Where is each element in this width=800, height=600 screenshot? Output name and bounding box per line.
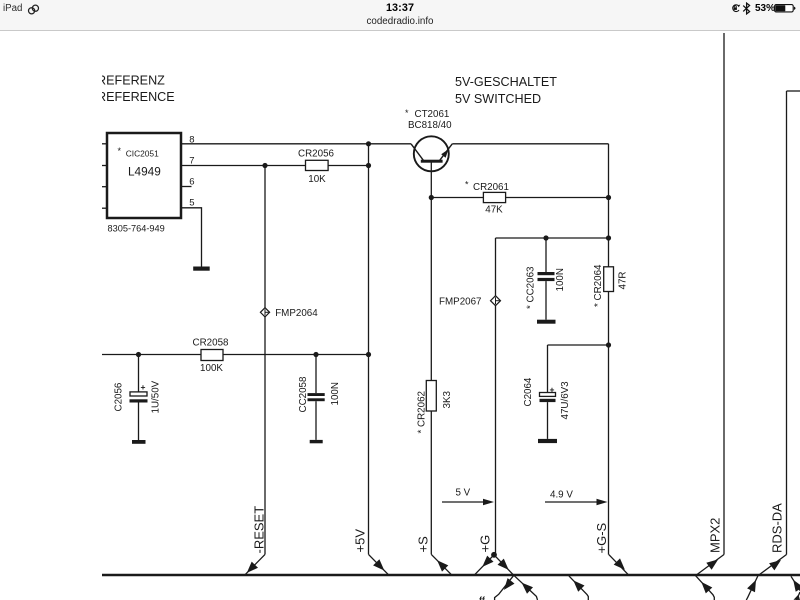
svg-text:*: * [118, 146, 122, 156]
svg-text:+G: +G [478, 535, 493, 553]
svg-text:FMP2067: FMP2067 [439, 296, 481, 307]
svg-text:+G-S: +G-S [594, 522, 609, 553]
svg-text:+: + [141, 382, 146, 392]
svg-text:CT2061: CT2061 [415, 109, 450, 120]
svg-text:* CR2062: * CR2062 [417, 391, 428, 433]
svg-text:3K3: 3K3 [442, 391, 453, 409]
svg-text:+: + [550, 385, 555, 395]
svg-text:CR2056: CR2056 [298, 149, 334, 160]
svg-text:100N: 100N [555, 268, 566, 291]
svg-text:+5V: +5V [353, 529, 368, 553]
svg-text:5: 5 [189, 197, 194, 208]
svg-text:REFERENZ: REFERENZ [97, 74, 165, 88]
svg-text:MPX2: MPX2 [708, 518, 723, 553]
svg-text:ff: ff [479, 596, 486, 600]
svg-text:47K: 47K [485, 205, 503, 216]
svg-text:*: * [405, 108, 409, 118]
svg-text:5 V: 5 V [456, 488, 471, 499]
svg-text:47U/6V3: 47U/6V3 [560, 381, 571, 420]
svg-text:BC818/40: BC818/40 [408, 120, 452, 131]
svg-text:8: 8 [189, 134, 194, 145]
svg-text:7: 7 [189, 156, 194, 167]
svg-text:+S: +S [416, 536, 431, 553]
svg-text:47R: 47R [618, 272, 629, 290]
svg-text:*: * [465, 180, 469, 190]
svg-text:5V-GESCHALTET: 5V-GESCHALTET [455, 75, 557, 89]
svg-text:L4949: L4949 [128, 165, 161, 179]
svg-text:100N: 100N [330, 382, 341, 405]
svg-text:-RESET: -RESET [252, 506, 267, 554]
svg-text:CIC2051: CIC2051 [126, 149, 159, 159]
svg-text:100K: 100K [200, 363, 223, 374]
svg-text:1U/50V: 1U/50V [151, 380, 162, 413]
svg-text:RDS-DA: RDS-DA [770, 503, 785, 553]
svg-text:* CC2063: * CC2063 [526, 266, 537, 309]
svg-text:10K: 10K [308, 174, 326, 185]
svg-text:5V SWITCHED: 5V SWITCHED [455, 92, 541, 106]
svg-text:C2064: C2064 [523, 377, 534, 406]
svg-text:8305-764-949: 8305-764-949 [108, 224, 165, 234]
svg-text:6: 6 [189, 176, 194, 187]
svg-text:CC2058: CC2058 [298, 376, 309, 412]
svg-text:CR2058: CR2058 [193, 337, 229, 348]
svg-text:CR2061: CR2061 [473, 182, 509, 193]
svg-text:* CR2064: * CR2064 [593, 264, 604, 307]
svg-text:REFERENCE: REFERENCE [97, 90, 175, 104]
svg-text:FMP2064: FMP2064 [275, 308, 318, 319]
svg-text:4.9 V: 4.9 V [550, 490, 573, 501]
svg-text:C2056: C2056 [114, 382, 125, 411]
